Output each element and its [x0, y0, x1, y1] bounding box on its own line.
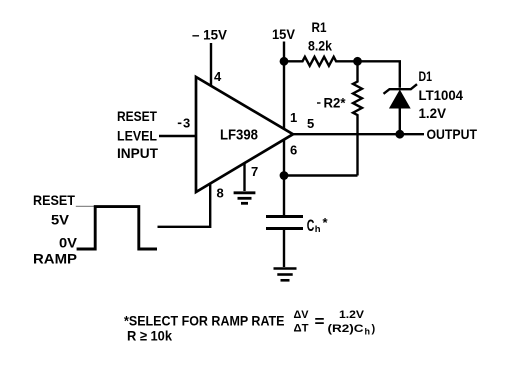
svg-text:C: C [307, 216, 315, 235]
reset level reference dash [76, 205, 94, 207]
junction dot 15V / R1 [280, 57, 289, 66]
junction dot hold-cap node [280, 171, 289, 180]
svg-text:0V: 0V [59, 235, 78, 251]
5V waveform label [51, 212, 70, 228]
svg-text:INPUT: INPUT [117, 145, 158, 161]
formula denominator subscript h [365, 327, 371, 337]
svg-text:D1: D1 [419, 68, 433, 84]
svg-text:R ≥ 10k: R ≥ 10k [127, 328, 172, 344]
op-amp U1 LF398 [196, 77, 293, 192]
svg-text:): ) [372, 323, 376, 335]
power label -15V [192, 27, 228, 43]
note R >= 10k [127, 328, 172, 344]
svg-text:(R2)C: (R2)C [328, 323, 364, 335]
svg-text:5: 5 [307, 116, 314, 131]
wire capacitor to ground [283, 230, 285, 267]
resistor R2 [353, 61, 362, 175]
svg-text:8.2k: 8.2k [308, 38, 332, 54]
pin 3 label [178, 116, 190, 131]
pin 7 label [251, 164, 258, 179]
zener diode D1 cathode bar [384, 84, 418, 94]
R2 label dash [317, 102, 321, 104]
wire reset level input to pin 3 [159, 135, 196, 138]
svg-text:LT1004: LT1004 [419, 87, 464, 103]
D1 value label 1.2V [419, 105, 447, 121]
junction dot D1 / output [395, 130, 404, 139]
0V waveform label [59, 235, 78, 251]
pin 6 label [290, 143, 297, 158]
svg-text:RESET: RESET [33, 192, 75, 208]
resistor R1 [284, 57, 358, 66]
svg-text:6: 6 [290, 143, 297, 158]
Ch label asterisk [323, 215, 329, 230]
pin 8 label [217, 185, 224, 200]
R2 label [324, 95, 347, 111]
wire output line from pin 5 [291, 133, 424, 135]
power label 15V [272, 26, 296, 42]
R1 value label 8.2k [308, 38, 332, 54]
formula equals sign [315, 314, 325, 331]
svg-text:=: = [315, 314, 325, 331]
formula denominator (R2)C [328, 323, 364, 335]
wire pin 7 to ground [243, 163, 245, 191]
svg-text:7: 7 [251, 164, 258, 179]
LEVEL input label [117, 128, 157, 144]
svg-text:1: 1 [290, 110, 297, 125]
zener diode D1 anode triangle [390, 91, 410, 109]
svg-text:OUTPUT: OUTPUT [427, 126, 478, 142]
D1 reference label [419, 68, 433, 84]
ground at pin 7 [234, 193, 256, 204]
wire feedback hold-cap node to R2 bottom [284, 174, 358, 176]
formula denominator closing paren [372, 323, 376, 335]
svg-text:15V: 15V [272, 26, 296, 42]
svg-text:1.2V: 1.2V [419, 105, 447, 121]
OUTPUT label [427, 126, 478, 142]
reset pulse waveform [77, 207, 157, 249]
wire hold-cap node down to capacitor [283, 176, 285, 216]
svg-text:– 15V: – 15V [192, 27, 228, 43]
R1 reference label [312, 19, 327, 35]
svg-text:RESET: RESET [117, 108, 157, 124]
svg-text:4: 4 [214, 69, 222, 84]
wire 15V supply down to pin 1 [283, 42, 285, 129]
wire R1 junction to D1 top [358, 61, 400, 88]
U1 label LF398 [220, 128, 258, 144]
INPUT input label [117, 145, 158, 161]
RESET waveform label [33, 192, 75, 208]
pin 4 label [214, 69, 222, 84]
note select for ramp rate [124, 313, 285, 329]
svg-text:h: h [315, 224, 321, 235]
svg-text:ΔT: ΔT [294, 323, 309, 335]
svg-text:8: 8 [217, 185, 224, 200]
wire ramp input to pin 8 [158, 184, 211, 227]
svg-text:R1: R1 [312, 19, 327, 35]
svg-text:RAMP: RAMP [33, 251, 77, 267]
svg-text:ΔV: ΔV [294, 309, 310, 321]
wire -15V supply to pin 4 [210, 43, 212, 87]
ground below capacitor [274, 269, 297, 281]
svg-text:*SELECT FOR RAMP RATE: *SELECT FOR RAMP RATE [124, 313, 285, 329]
svg-text:LF398: LF398 [220, 128, 258, 144]
RAMP waveform label [33, 251, 77, 267]
svg-text:R2*: R2* [324, 95, 347, 111]
svg-text:h: h [365, 327, 371, 337]
svg-text:LEVEL: LEVEL [117, 128, 157, 144]
svg-text:3: 3 [183, 116, 190, 131]
pin 5 label [307, 116, 314, 131]
capacitor Ch top plate [266, 215, 303, 218]
svg-text:1.2V: 1.2V [339, 309, 365, 321]
formula delta V over delta T [294, 309, 310, 335]
RESET input label [117, 108, 157, 124]
wire D1 anode to output line [399, 108, 401, 134]
wire pin 6 to hold-cap node [283, 139, 285, 176]
pin 1 label [290, 110, 297, 125]
D1 part label LT1004 [419, 87, 464, 103]
formula numerator 1.2V [339, 309, 365, 321]
capacitor Ch bottom plate [266, 227, 303, 230]
svg-text:5V: 5V [51, 212, 70, 228]
junction dot R1 / R2 / D1 [353, 57, 362, 66]
Ch label subscript h [315, 224, 321, 235]
Ch label C [307, 216, 315, 235]
